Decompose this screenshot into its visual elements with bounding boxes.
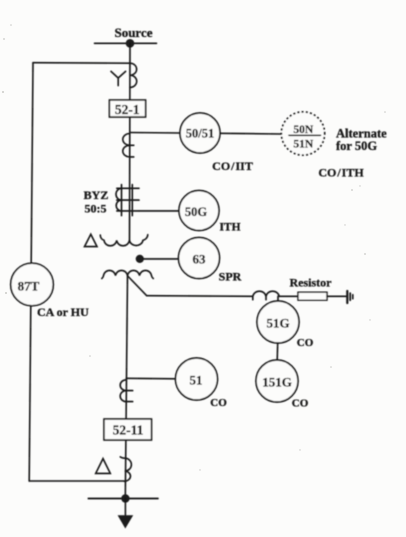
svg-text:ITH: ITH — [219, 222, 240, 234]
relay 50/51 — [180, 113, 220, 153]
relay 50N/51N (alternate, dotted) — [281, 112, 324, 155]
wire main vertical upper (source to transformer primary) — [129, 43, 132, 240]
svg-text:50:5: 50:5 — [85, 202, 107, 216]
node bus junction dot — [121, 494, 129, 502]
CT bottom (on main line) — [120, 457, 131, 481]
wire BYZ to 50G — [139, 210, 179, 212]
delta symbol (primary winding connection) — [85, 234, 98, 246]
wire 50/51 to 50N/51N — [220, 132, 282, 135]
svg-text:for 50G: for 50G — [336, 139, 377, 153]
wire to 50/51 — [130, 132, 180, 135]
fraction bar 50N/51N — [289, 134, 321, 136]
wire CT to resistor — [279, 295, 298, 297]
svg-text:SPR: SPR — [219, 269, 242, 283]
relay 51G — [257, 301, 299, 343]
bus (horizontal) — [88, 498, 158, 500]
svg-text:51G: 51G — [266, 316, 289, 331]
svg-text:50/51: 50/51 — [186, 127, 214, 141]
wire 51G to 151G — [276, 343, 279, 360]
feeder arrow — [124, 499, 126, 518]
ground — [346, 291, 348, 303]
CT for 51 (loops on main line) — [120, 380, 133, 402]
wire source horizontal bar — [95, 42, 157, 44]
wye symbol — [111, 71, 126, 85]
svg-text:Source: Source — [114, 25, 152, 40]
relay 63 — [179, 238, 220, 279]
svg-text:52-11: 52-11 — [113, 423, 144, 438]
wire neutral horizontal to resistor — [147, 295, 253, 298]
node source junction dot — [126, 39, 135, 48]
node transformer tap dot — [136, 255, 144, 263]
wire tap to 63 — [143, 258, 178, 260]
relay 87T — [11, 263, 54, 306]
relay 151G — [256, 360, 298, 402]
svg-text:50G: 50G — [185, 205, 208, 219]
svg-text:51: 51 — [190, 373, 203, 388]
delta symbol (secondary side) — [96, 459, 111, 474]
breaker 52-1 — [109, 100, 145, 117]
CT BYZ (ground sensor window CT) — [121, 185, 123, 216]
transformer primary winding — [100, 235, 148, 246]
svg-text:Resistor: Resistor — [290, 276, 333, 290]
CT top (wye-connected, at source) — [130, 63, 137, 87]
svg-text:CO: CO — [210, 397, 227, 409]
svg-text:CO: CO — [297, 337, 314, 349]
relay 51 — [176, 358, 218, 400]
svg-text:151G: 151G — [262, 375, 292, 390]
wire 87T left branch: bottom horizontal — [29, 480, 125, 482]
svg-text:CO / ITH: CO / ITH — [318, 166, 364, 180]
breaker 52-11 — [104, 419, 152, 440]
resistor (neutral grounding resistor) — [298, 292, 327, 300]
svg-text:63: 63 — [193, 252, 207, 267]
CT for 51G (on neutral) — [253, 291, 279, 300]
wire resistor to ground — [327, 295, 346, 297]
wire neutral drop to 51G — [277, 296, 279, 301]
wire secondary neutral diagonal — [128, 276, 147, 296]
wire 87T left branch: top horizontal — [33, 62, 130, 65]
svg-text:87T: 87T — [18, 279, 40, 294]
wire 87T left branch: left vertical — [29, 63, 33, 481]
svg-text:CO: CO — [292, 398, 309, 410]
transformer secondary winding — [102, 270, 154, 278]
svg-text:BYZ: BYZ — [84, 188, 109, 202]
wire main vertical lower (secondary to bus) — [125, 276, 127, 499]
svg-text:50N: 50N — [293, 124, 314, 136]
wire to 51 — [126, 377, 176, 380]
relay 50G — [179, 191, 219, 231]
svg-text:CA or HU: CA or HU — [37, 305, 89, 319]
svg-text:CO / IIT: CO / IIT — [212, 159, 253, 173]
svg-text:51N: 51N — [293, 139, 314, 151]
svg-text:52-1: 52-1 — [115, 102, 140, 117]
CT for 50/51 (loops on main line) — [123, 134, 134, 157]
